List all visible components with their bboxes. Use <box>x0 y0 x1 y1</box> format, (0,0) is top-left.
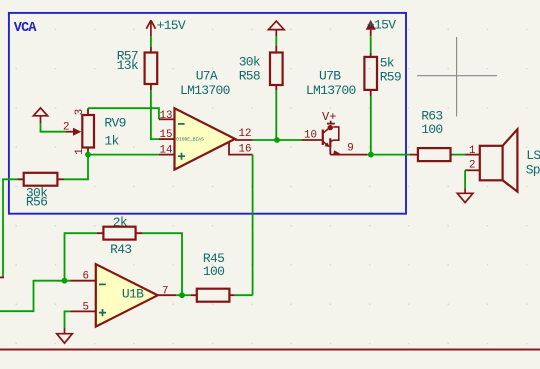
resistor R45 <box>191 251 235 302</box>
svg-text:U7B: U7B <box>319 68 341 83</box>
svg-text:R59: R59 <box>380 70 401 85</box>
VCA group box <box>9 13 406 214</box>
svg-text:+15V: +15V <box>367 18 396 33</box>
svg-text:2: 2 <box>63 121 69 133</box>
wire power to R59 <box>370 36 372 53</box>
svg-text:LM13700: LM13700 <box>180 83 230 98</box>
junction U7A output <box>274 137 280 143</box>
wire R58 to output junction <box>275 90 277 140</box>
svg-text:7: 7 <box>162 285 168 297</box>
resistor R43 <box>97 215 143 257</box>
svg-text:15: 15 <box>160 129 173 141</box>
cursor crosshair <box>417 37 497 117</box>
speaker LS1 <box>465 129 540 191</box>
svg-text:10: 10 <box>304 129 317 141</box>
wire R63 to LS1 pin1 <box>453 154 466 156</box>
svg-text:100: 100 <box>203 264 224 279</box>
svg-text:LS1: LS1 <box>526 148 540 163</box>
wire R56 right to RV9 pin1 <box>64 155 88 180</box>
op-amp U7B buffer (darlington) <box>301 68 367 154</box>
resistor R63 <box>410 109 453 162</box>
wire RV9 pin1 to U7A pin14 <box>88 154 159 156</box>
wire R56 left down to edge stub <box>3 179 18 277</box>
svg-text:1: 1 <box>469 145 475 157</box>
port arrow (open triangle, above R58) <box>269 21 285 36</box>
wire RV9 pin3 to U7A pin13 <box>88 108 159 119</box>
wire R59 to junction <box>370 96 372 155</box>
ground (below U1B) <box>57 328 73 344</box>
svg-text:30k: 30k <box>239 55 261 70</box>
svg-text:2: 2 <box>469 160 475 172</box>
svg-text:1: 1 <box>74 148 86 154</box>
svg-text:16: 16 <box>239 144 252 156</box>
svg-text:3: 3 <box>74 109 86 115</box>
pin stub at left edge <box>0 276 4 278</box>
svg-text:6: 6 <box>83 271 89 283</box>
ground (below speaker) <box>457 188 473 202</box>
wire feedback R43 left <box>65 233 97 281</box>
wire U7A pin16 down to R45 <box>252 155 254 296</box>
svg-text:13: 13 <box>160 110 173 122</box>
resistor R56 <box>18 173 64 210</box>
wire U7A pin12 to buffer pin10 <box>253 139 302 141</box>
wire R43 right to output junction <box>142 233 182 295</box>
power symbol +15V (filled arrow, above R59) <box>366 18 397 37</box>
svg-text:R58: R58 <box>239 68 260 83</box>
op-amp U1B <box>71 264 177 327</box>
svg-text:9: 9 <box>347 142 353 154</box>
svg-text:Spe: Spe <box>526 163 540 178</box>
wire buffer out to R63 <box>367 154 410 156</box>
svg-text:R43: R43 <box>110 242 131 257</box>
wire R57 to pin15 <box>151 90 159 139</box>
junction R59 output <box>368 152 374 158</box>
wire LS1 pin2 to ground <box>464 170 466 188</box>
op-amp U7A LM13700 <box>159 68 253 169</box>
junction U1B output <box>179 292 185 298</box>
svg-text:100: 100 <box>421 122 442 137</box>
svg-text:14: 14 <box>160 145 173 157</box>
wire U1B pin5 to ground <box>65 311 71 327</box>
svg-text:5: 5 <box>83 301 89 313</box>
svg-text:U1B: U1B <box>122 286 144 301</box>
resistor R57 <box>117 47 158 90</box>
resistor R59 <box>364 53 401 96</box>
wire port to R58 <box>275 36 277 46</box>
svg-text:5k: 5k <box>380 56 395 71</box>
power symbol +15V (open arrow, above R57) <box>146 20 155 36</box>
junction RV9 pin1 <box>85 152 91 158</box>
svg-text:1k: 1k <box>104 133 119 148</box>
svg-text:R56: R56 <box>26 195 47 210</box>
svg-text:RV9: RV9 <box>104 116 125 131</box>
svg-text:VCA: VCA <box>14 21 38 36</box>
potentiometer RV9 <box>63 108 126 155</box>
svg-text:12: 12 <box>239 128 252 140</box>
svg-text:+15V: +15V <box>157 18 186 33</box>
wire U1B out to R45 <box>176 294 191 296</box>
wire R45 right to U7A pin16 line <box>235 294 253 296</box>
junction U1B pin6 <box>62 278 68 284</box>
resistor R58 <box>239 46 283 90</box>
svg-text:DIODE_BIAS: DIODE_BIAS <box>176 137 204 143</box>
input port arrow (open triangle, left) <box>33 108 47 123</box>
wire power to R57 <box>150 36 152 47</box>
svg-text:V+: V+ <box>322 110 336 124</box>
svg-text:13k: 13k <box>117 58 139 73</box>
wire port to RV9 wiper <box>41 123 67 132</box>
svg-text:LM13700: LM13700 <box>306 83 356 98</box>
svg-text:U7A: U7A <box>196 68 218 83</box>
wire staircase to U1B pin6 <box>0 281 71 312</box>
